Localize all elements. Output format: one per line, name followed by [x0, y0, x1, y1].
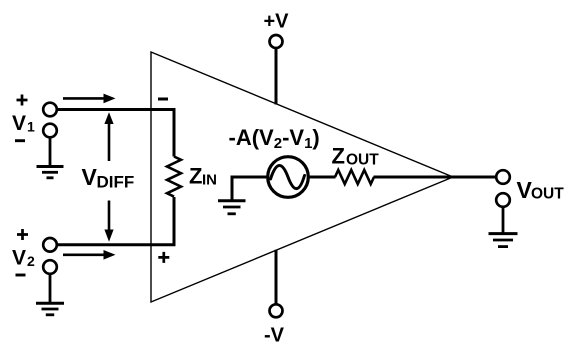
svg-text:DIFF: DIFF — [97, 173, 135, 192]
svg-text:Z: Z — [189, 164, 202, 189]
wire V2 lower terminal to ground — [49, 274, 52, 304]
current direction arrow at V2 — [63, 250, 116, 260]
output terminal circle — [496, 170, 510, 184]
node V2 label — [12, 247, 35, 270]
svg-text:+V: +V — [264, 11, 290, 33]
-V supply label — [264, 325, 285, 347]
dependent source label -A(V2-V1) — [229, 125, 320, 152]
-V terminal circle — [270, 304, 283, 317]
ground at dependent source — [218, 201, 246, 214]
wire V1 to inverting input — [57, 110, 174, 157]
wire -V stem into op-amp — [275, 250, 278, 304]
svg-text:V: V — [82, 164, 98, 190]
+V supply label — [264, 11, 290, 33]
output ground terminal circle — [496, 193, 510, 207]
wire ZOUT through apex to output terminal — [374, 176, 497, 179]
svg-text:1: 1 — [27, 119, 35, 135]
V2 + input terminal circle — [43, 238, 57, 252]
wire +V stem into op-amp — [275, 48, 278, 104]
dependent source U2 (controlled source circle) — [268, 157, 309, 198]
wire source to ZOUT — [308, 176, 335, 179]
svg-text:-A(V2-V1): -A(V2-V1) — [229, 125, 320, 152]
V1 plus polarity mark — [17, 95, 28, 106]
V2 minus polarity mark — [16, 274, 26, 277]
V1 minus polarity mark — [15, 139, 25, 142]
V1 - input terminal circle — [43, 124, 57, 138]
svg-text:-V: -V — [264, 325, 285, 347]
current direction arrow at V1 — [63, 94, 116, 104]
wire V2 to non-inverting input — [57, 197, 174, 245]
svg-text:V: V — [12, 112, 26, 135]
svg-text:IN: IN — [202, 172, 217, 189]
VDIFF upper arrow (points up) — [104, 112, 113, 161]
ground at V1 — [37, 167, 64, 178]
ZIN value label — [189, 164, 217, 189]
svg-text:OUT: OUT — [346, 152, 379, 169]
svg-text:Z: Z — [332, 144, 345, 169]
resistor ZIN — [167, 157, 181, 197]
V2 - input terminal circle — [43, 260, 57, 274]
V1 + input terminal circle — [43, 103, 57, 117]
node V1 label — [12, 112, 35, 135]
op-amp U1 triangle body — [151, 52, 453, 302]
node VDIFF label — [82, 164, 135, 192]
ground at output — [489, 234, 518, 247]
wire dependent source to internal ground — [232, 177, 268, 201]
wire V1 lower terminal to ground — [49, 137, 52, 167]
V2 plus polarity mark — [17, 229, 28, 240]
wire output ground stem — [502, 207, 505, 234]
ZOUT value label — [332, 144, 380, 169]
node VOUT label — [517, 177, 565, 203]
svg-text:V: V — [12, 247, 26, 270]
svg-text:2: 2 — [27, 253, 35, 269]
op-amp non-inverting input plus mark — [158, 252, 169, 263]
op-amp inverting input minus mark — [158, 98, 168, 101]
ground at V2 — [36, 303, 64, 315]
VDIFF lower arrow (points down) — [104, 201, 113, 242]
resistor ZOUT — [335, 170, 374, 184]
+V terminal circle — [270, 35, 283, 48]
svg-text:OUT: OUT — [531, 186, 564, 203]
